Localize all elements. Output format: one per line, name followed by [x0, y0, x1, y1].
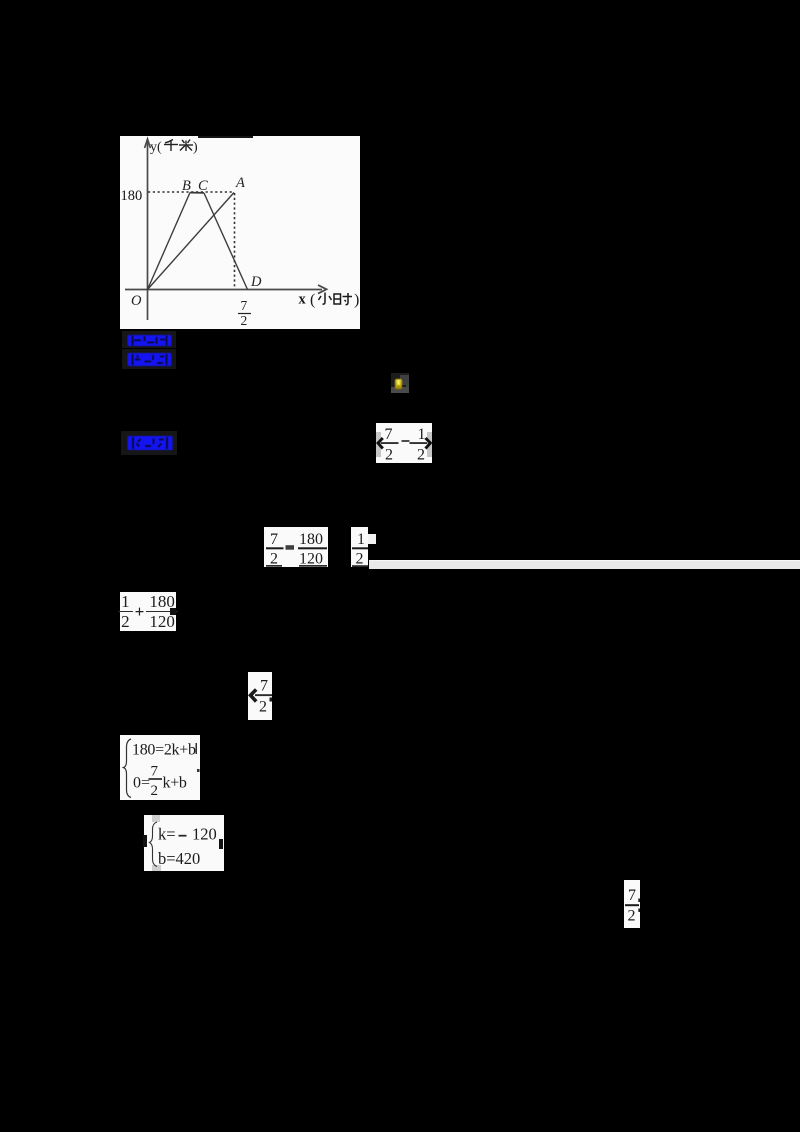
svg-text:7: 7: [270, 531, 278, 548]
svg-text:7: 7: [241, 298, 248, 313]
svg-text:180=2k+b: 180=2k+b: [132, 741, 196, 758]
formula ( 7/2: [248, 672, 272, 720]
svg-text:2: 2: [385, 446, 393, 463]
svg-text:2: 2: [259, 699, 267, 716]
line B-C: [190, 192, 204, 194]
formula 7/2 - 180/120: [264, 527, 328, 567]
svg-text:2: 2: [628, 908, 636, 925]
svg-text:B: B: [182, 178, 191, 194]
svg-text:O: O: [131, 293, 142, 309]
svg-text:): ): [354, 292, 359, 309]
left paren arrow: [251, 690, 257, 702]
svg-text:2: 2: [417, 446, 425, 463]
svg-text:(: (: [310, 292, 315, 309]
svg-text:x: x: [299, 292, 307, 308]
blue label 1: [122, 331, 176, 348]
formula 1/2: [351, 527, 368, 567]
right paren arrow: [426, 438, 431, 449]
hanzi shi: [334, 293, 352, 305]
small yellow icon: [391, 373, 409, 393]
x-axis: [125, 289, 322, 291]
formula 1/2 + 180/120: [120, 592, 176, 631]
formula 7/2 tall: [624, 880, 640, 928]
hanzi qian: [164, 140, 178, 152]
svg-text:7: 7: [628, 887, 636, 904]
left paren arrow: [378, 438, 383, 449]
svg-text:k+b: k+b: [163, 775, 187, 792]
svg-text:k=: k=: [158, 824, 176, 843]
svg-text:b=420: b=420: [158, 849, 200, 868]
svg-text:1: 1: [357, 531, 365, 548]
graph box: [120, 136, 360, 329]
system k=-120 ; b=420: [144, 815, 224, 871]
hanzi mi: [179, 140, 193, 152]
line O-A: [148, 193, 235, 290]
svg-text:0=: 0=: [133, 775, 150, 792]
dotted vertical to 7/2: [234, 193, 236, 288]
curly brace: [150, 822, 158, 867]
svg-text:C: C: [198, 178, 208, 194]
gray band: [369, 560, 800, 569]
white tab: [368, 534, 376, 544]
line C-D: [204, 193, 248, 290]
svg-text:): ): [193, 140, 198, 155]
svg-text:2: 2: [270, 551, 278, 567]
system 180=2k+b ; 0=7/2 k+b: [120, 735, 200, 800]
svg-text:2: 2: [151, 783, 159, 799]
formula (7/2 - 1/2): [376, 423, 432, 463]
svg-text:2: 2: [356, 551, 364, 567]
top edge smudge: [198, 136, 253, 138]
svg-text:7: 7: [151, 764, 159, 780]
hanzi xiao: [319, 293, 332, 305]
svg-text:180: 180: [299, 531, 323, 548]
dark square: [170, 608, 176, 615]
svg-text:D: D: [250, 274, 262, 290]
gray edge strips: [376, 432, 381, 457]
svg-text:7: 7: [385, 426, 393, 443]
svg-text:A: A: [235, 175, 245, 191]
blue label 3: [121, 431, 177, 455]
curly brace: [124, 739, 132, 798]
svg-text:y(: y(: [150, 140, 162, 155]
y-axis: [147, 142, 149, 320]
svg-text:2: 2: [241, 313, 248, 328]
dotted horizontal 180: [148, 191, 234, 193]
svg-text:120: 120: [192, 824, 217, 843]
minus sign: [402, 440, 410, 442]
svg-text:1: 1: [418, 426, 426, 443]
svg-text:180: 180: [121, 188, 143, 204]
line O-B: [148, 193, 191, 290]
blue label 2: [122, 349, 176, 369]
svg-text:120: 120: [299, 551, 323, 567]
svg-text:7: 7: [260, 678, 268, 695]
